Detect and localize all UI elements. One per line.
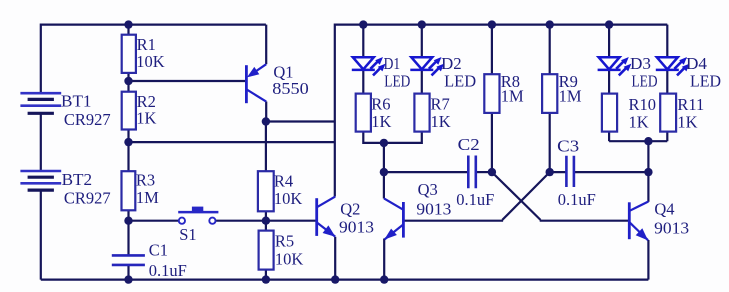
wire cross diagonal to Q4 base (492, 172, 541, 220)
wire D3 to R10 (608, 69, 610, 93)
node dot C3 right Q4 collector (644, 168, 652, 176)
svg-text:Q3: Q3 (418, 180, 438, 199)
node dot R10-R11 (644, 137, 652, 145)
resistor R3 (122, 171, 136, 210)
resistor R9 (542, 74, 557, 113)
wire R6 bottom lead (363, 132, 384, 143)
svg-text:LED: LED (384, 72, 410, 91)
transistor Q4 (629, 202, 648, 241)
svg-text:8550: 8550 (272, 79, 309, 98)
capacitor C3 (566, 156, 574, 187)
wire Q4 base horizontal (540, 220, 630, 222)
wire top-left rail (41, 24, 266, 26)
node dot R1-R2 base (124, 77, 132, 85)
wire Q3 base horizontal (403, 220, 503, 222)
svg-text:9013: 9013 (416, 199, 451, 218)
wire R9 bottom lead (549, 113, 551, 172)
resistor R5 (259, 231, 274, 270)
wire D4 to R11 (666, 69, 668, 93)
svg-text:0.1uF: 0.1uF (456, 190, 494, 209)
resistor R4 (258, 171, 274, 211)
resistor R8 (484, 74, 499, 113)
svg-text:0.1uF: 0.1uF (149, 261, 187, 280)
wire Q4 emitter drop (647, 240, 649, 280)
node dot bottom rail Q2 emitter (331, 275, 339, 283)
wire C3 left (550, 171, 566, 173)
wire S1 right (216, 220, 266, 222)
svg-text:R4: R4 (274, 171, 293, 190)
svg-text:9013: 9013 (339, 218, 374, 237)
svg-text:10K: 10K (275, 249, 304, 268)
svg-text:1K: 1K (677, 112, 697, 131)
svg-text:S1: S1 (179, 225, 196, 244)
node dot C3 left R9 (546, 168, 554, 176)
wire R1-R2 lead (127, 73, 129, 92)
svg-text:1M: 1M (559, 87, 582, 106)
battery BT1 (20, 93, 61, 113)
wire R10 bottom lead (608, 132, 610, 142)
resistor R2 (122, 92, 136, 130)
wire Q1 collector drop (265, 102, 267, 122)
resistor R1 (122, 35, 136, 73)
node dot R6-R7 (380, 139, 388, 147)
svg-text:1M: 1M (501, 87, 524, 106)
svg-text:0.1uF: 0.1uF (558, 190, 596, 209)
wire D4 top lead (666, 25, 668, 58)
svg-text:1K: 1K (629, 112, 649, 131)
wire R4-R5 lead (265, 211, 267, 230)
wire R8 bottom lead (491, 113, 493, 172)
node dot top rail D1 (359, 20, 367, 28)
svg-text:R7: R7 (431, 95, 450, 114)
svg-text:9013: 9013 (654, 219, 689, 238)
transistor Q2 (317, 197, 336, 237)
svg-text:Q2: Q2 (340, 200, 360, 219)
svg-text:LED: LED (690, 72, 721, 91)
node dot Q1 collector (262, 117, 270, 125)
wire C2 left (384, 171, 468, 173)
wire C2 right (476, 171, 492, 173)
svg-text:R6: R6 (371, 95, 390, 114)
svg-text:1K: 1K (371, 112, 391, 131)
wire C1 bottom lead (127, 265, 129, 280)
node dot top rail R9 (546, 20, 554, 28)
svg-text:D4: D4 (686, 54, 707, 73)
svg-text:10K: 10K (274, 189, 303, 208)
svg-text:R11: R11 (677, 95, 704, 114)
resistor R7 (414, 94, 429, 132)
capacitor C1 (112, 255, 145, 265)
svg-text:LED: LED (444, 72, 476, 91)
node dot top rail D2 (418, 20, 426, 28)
wire Q2 emitter drop (334, 237, 336, 280)
wire cross diagonal to Q3 base (502, 172, 549, 220)
battery BT2 (20, 171, 61, 190)
svg-text:Q4: Q4 (654, 199, 674, 218)
svg-text:C3: C3 (557, 136, 579, 155)
node dot top rail R8 (488, 20, 496, 28)
LED D3 (598, 57, 632, 75)
wire left drop to BT1 (40, 24, 42, 94)
transistor Q1 (246, 64, 266, 103)
svg-text:1M: 1M (136, 188, 159, 207)
svg-text:10K: 10K (136, 52, 165, 71)
wire R5 bottom lead (265, 270, 267, 280)
svg-text:C1: C1 (149, 241, 168, 260)
switch S1 (178, 207, 218, 224)
svg-text:C2: C2 (458, 135, 480, 154)
LED D4 (656, 57, 690, 75)
wire R1 top lead (127, 25, 129, 35)
wire S1 left (129, 220, 179, 222)
svg-text:D2: D2 (441, 54, 462, 73)
svg-text:D1: D1 (384, 54, 401, 73)
svg-text:1K: 1K (431, 112, 451, 131)
LED D2 (410, 57, 444, 75)
resistor R10 (602, 94, 617, 132)
wire R11 bottom lead (666, 132, 668, 142)
wire Q1 collector to bus (266, 120, 335, 122)
wire R10-R11 join horizontal (609, 140, 667, 142)
svg-text:BT1: BT1 (61, 92, 92, 111)
node dot top rail D3 (605, 20, 613, 28)
node dot R4-R5 (262, 217, 270, 225)
node dot bottom rail C1 (124, 275, 132, 283)
wire D1 to R6 (362, 69, 364, 93)
wire Q3 emitter drop (383, 239, 385, 280)
svg-text:1K: 1K (136, 108, 156, 127)
wire Q2 base (266, 220, 317, 222)
svg-text:BT2: BT2 (62, 170, 93, 189)
wire R8 top lead (491, 25, 493, 75)
wire node column to Q3 collector (383, 143, 385, 199)
node dot bottom rail R5 (262, 275, 270, 283)
resistor R11 (660, 94, 676, 132)
svg-text:R10: R10 (629, 95, 657, 114)
node dot bottom rail Q3 emitter (380, 275, 388, 283)
node dot R2-R3 (124, 138, 132, 146)
wire R7 bottom lead (384, 132, 422, 143)
wire Q1 base (129, 80, 247, 82)
capacitor C2 (468, 156, 476, 189)
wire D2 top lead (421, 25, 423, 58)
wire Q1 emitter drop (265, 25, 267, 65)
wire BT1 to BT2 (40, 113, 42, 171)
wire vertical bus to Q2 collector (334, 24, 336, 197)
resistor R6 (356, 94, 371, 132)
node dot C2 left Q3 collector (380, 168, 388, 176)
wire top-right rail (335, 24, 668, 26)
node dot R3-S1-C1 (124, 217, 132, 225)
transistor Q3 (384, 198, 403, 239)
wire R4 column (265, 122, 267, 172)
wire C3 right (575, 171, 649, 173)
svg-text:R5: R5 (275, 232, 294, 251)
svg-text:R3: R3 (136, 171, 155, 190)
node dot top rail R1 (124, 20, 132, 28)
wire D2 to R7 (421, 69, 423, 93)
svg-text:CR927: CR927 (64, 189, 111, 208)
LED D1 (352, 57, 386, 75)
wire D1 top lead (362, 25, 364, 58)
wire mid horizontal to vertical bus (129, 141, 335, 143)
wire bottom rail (41, 279, 649, 281)
wire R3 to S1 row to C1 (127, 210, 129, 255)
svg-text:CR927: CR927 (64, 110, 111, 129)
node dot C2 right R8 (488, 168, 496, 176)
wire BT2 to bottom rail (40, 190, 42, 279)
svg-text:LED: LED (632, 72, 658, 91)
wire R2-R3 lead (127, 130, 129, 172)
wire node drop to Q4 collector (647, 141, 649, 202)
wire R9 top lead (549, 25, 551, 75)
svg-text:D3: D3 (630, 54, 651, 73)
wire D3 top lead (608, 25, 610, 58)
